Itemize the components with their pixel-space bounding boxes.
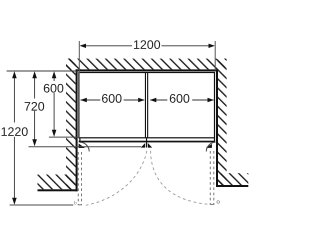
- wall hatching: right vertical band: [218, 59, 227, 185]
- left pivot triangle: [79, 144, 85, 149]
- left door swing arc dashed: [86, 151, 147, 206]
- right pivot triangle: [206, 144, 212, 148]
- handle triangle right door: [148, 143, 152, 148]
- top wall face line: [76, 69, 218, 71]
- left pivot angle arc: [80, 142, 89, 151]
- dim 600 left door: label: [102, 94, 122, 103]
- dim 600 depth: arrows: [52, 71, 57, 78]
- dim 600 left door: line: [81, 99, 101, 101]
- fridge left side to door: [79, 138, 80, 141]
- dim 720 depth: label: [25, 102, 45, 111]
- center gap stub: [146, 138, 147, 148]
- dim 720 depth: line: [34, 78, 36, 99]
- dim 600 left door: arrows: [80, 98, 86, 103]
- right pivot angle arc: [206, 142, 215, 151]
- right wall face line: [216, 69, 218, 187]
- wall hatching: bottom-right return block: [218, 173, 249, 185]
- fridge body outline: [79, 73, 215, 138]
- wall hatching: top band: [66, 59, 226, 70]
- top reference line for depth dims: [7, 70, 78, 72]
- dim 720 depth: arrows: [32, 71, 37, 78]
- left wall face line: [76, 69, 78, 191]
- bottom-right wall face line: [216, 185, 248, 187]
- door divider line left: [145, 72, 146, 137]
- door divider line right: [147, 72, 148, 137]
- dim 600 depth: label: [44, 84, 64, 93]
- dim 600 right door: arrows: [150, 98, 156, 103]
- wall hatching: bottom-left return block: [38, 175, 76, 190]
- dim 1220 depth: label: [2, 127, 28, 136]
- wall hatching: left vertical band: [66, 59, 76, 190]
- tiny degree circle at right door end: [217, 201, 220, 204]
- dim 1200: extension line right: [214, 41, 216, 71]
- fridge right side to door: [214, 138, 215, 141]
- dim 600 right door: line: [150, 99, 167, 101]
- open right door dashed: [209, 151, 211, 204]
- dim 600 depth: line: [53, 78, 55, 81]
- dim 1200: line: [82, 45, 132, 47]
- dim 720 depth: bottom extension line: [29, 146, 142, 148]
- handle triangle left door: [141, 143, 145, 148]
- dim 1220 depth: line: [13, 78, 15, 123]
- open left door dashed: [77, 152, 79, 205]
- dim 1220 depth: bottom reference line: [10, 204, 74, 206]
- fridge door front line: [79, 141, 216, 143]
- right door swing arc dashed: [151, 151, 208, 204]
- dim 1200: label: [134, 40, 160, 49]
- dim 600 depth: bottom extension line: [49, 136, 79, 138]
- dim 1200: left arrow: [80, 44, 86, 48]
- dim 600 right door: label: [170, 94, 190, 103]
- dim 1200: extension line left: [78, 41, 80, 74]
- dim 1220 depth: arrows: [12, 71, 17, 78]
- dim 1200: right arrow: [209, 44, 215, 48]
- tiny label b at left door end: [74, 201, 76, 205]
- bottom-left wall face line: [38, 189, 78, 191]
